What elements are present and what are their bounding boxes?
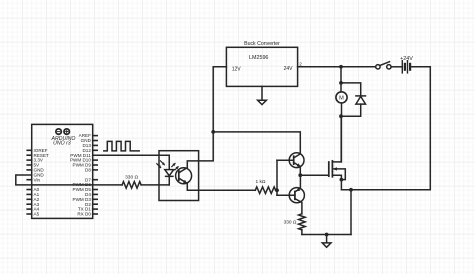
node diode tap bottom [339,114,343,118]
wire rail to switch [341,66,376,68]
wire motor branch [340,67,342,83]
wire GND loop to LED cathode (runs under Arduino) [16,175,122,185]
PWM square-wave icon [104,141,139,151]
MOSFET Q3 [328,162,330,176]
Arduino right pin stubs [93,136,98,214]
opto LED D1 [168,155,170,169]
wire battery to right corner down [351,67,430,190]
Arduino U3 box [32,124,93,218]
ground below buck [261,86,263,100]
wire to motor top [340,83,342,92]
flyback diode D2 [341,83,361,96]
opto light arrows right pair [172,164,175,167]
svg-text:1 kΩ: 1 kΩ [256,179,266,185]
opto light arrows left pair [157,164,161,168]
svg-text:+24V: +24V [400,56,413,62]
switch SW1 [376,65,380,69]
Arduino logo [56,129,61,134]
node motor tap [339,65,343,69]
wire D11 to opto anode [93,154,170,156]
svg-text:12V: 12V [232,66,242,72]
buck converter U2 box [226,47,297,86]
node base junction [275,188,279,192]
transistor Q2 PNP [289,188,304,203]
wire 12V rail to Q1 collector [213,132,300,154]
svg-text:LM2596: LM2596 [249,55,268,61]
svg-text:330 Ω: 330 Ω [284,219,297,225]
svg-text:Vin: Vin [34,177,41,182]
wire motor to MOSFET drain [340,116,342,162]
svg-text:A5: A5 [34,212,40,217]
resistor R3 330ohm vertical [299,214,306,230]
bottom wire [302,234,351,236]
wire gate [300,174,329,176]
svg-text:Buck Converter: Buck Converter [244,41,280,47]
ground bottom [326,235,328,243]
node diode tap top [339,81,343,85]
opto phototransistor [176,168,192,184]
svg-text:2: 2 [299,61,302,66]
wire resistor to opto cathode [141,184,169,186]
Arduino right pin labels [70,133,92,216]
base bus wire [276,160,278,190]
node 12V junction [211,130,215,134]
Arduino left pin labels [34,148,50,217]
wire source down [350,190,352,235]
transistor Q1 NPN [289,153,304,168]
svg-text:24V: 24V [284,66,294,72]
wire motor bottom [341,103,343,116]
wire 12V from buck down [213,67,226,132]
node body-source [340,178,344,182]
wire buck output pin 2 [298,66,341,68]
node source junction [349,188,353,192]
svg-text:D8: D8 [85,168,91,173]
node gate drive [298,173,302,177]
motor M1 [336,92,347,103]
svg-text:330 Ω: 330 Ω [125,174,138,180]
node ground tap [325,233,329,237]
Arduino left pin stubs [27,150,32,214]
svg-text:M: M [339,96,344,102]
svg-text:UNO r3: UNO r3 [53,141,71,147]
battery V1 [401,61,403,73]
wire switch to battery [391,66,402,68]
svg-text:RX D0: RX D0 [77,212,91,217]
optocoupler U1 box [159,151,199,201]
resistor R2 1kohm [255,187,275,194]
resistor R1 330ohm [122,182,141,189]
